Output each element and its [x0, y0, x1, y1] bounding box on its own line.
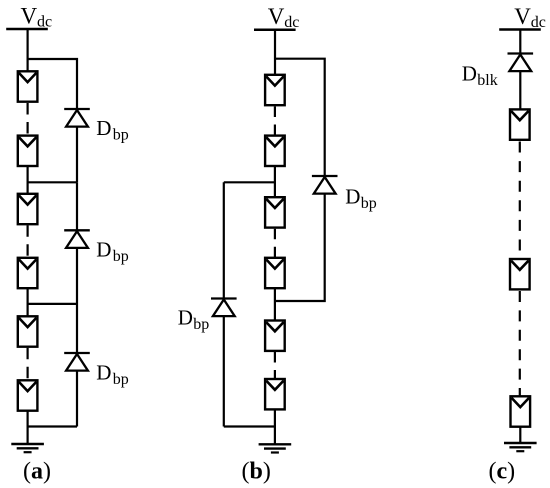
bypass diode D_bp3 (a): [64, 353, 90, 371]
net V_dc (c) label: [514, 4, 546, 31]
node V_dc (c) terminal bar: [499, 29, 541, 31]
node V_dc (a) terminal bar: [6, 28, 48, 30]
wire top branch to bypass column (a): [28, 59, 77, 110]
wire PV4 to PV5 (b): [274, 288, 276, 321]
svg-text:V: V: [268, 4, 285, 29]
PV module PV2 (a): [18, 136, 38, 166]
PV module PV1 (c): [510, 109, 530, 139]
bypass diode D_bp2 (a): [64, 230, 90, 248]
svg-text:blk: blk: [477, 72, 497, 89]
ground (c): [504, 443, 537, 451]
PV module PV5 (a): [18, 316, 38, 346]
wire bypass column upper (a): [76, 109, 78, 182]
dashed wire PV2-PV3 (c): [519, 291, 521, 396]
dashed wire PV3-PV4 (b): [274, 229, 276, 258]
svg-text:(a): (a): [23, 459, 51, 485]
PV module PV6 (a): [18, 380, 38, 410]
label D_bp1 (a): [96, 116, 129, 144]
wire blocking diode to PV1 (c): [519, 70, 521, 110]
PV module PV5 (b): [265, 321, 285, 351]
wire from V_dc bar down to string (b): [274, 30, 276, 75]
svg-text:V: V: [514, 4, 531, 29]
wire PV2 to PV3 (b): [274, 166, 276, 198]
ground (b): [259, 444, 292, 452]
svg-text:bp: bp: [113, 127, 129, 144]
PV module PV2 (b): [265, 136, 285, 166]
PV module PV3 (b): [265, 197, 285, 227]
wire PV3 to ground node (c): [519, 427, 521, 443]
svg-text:(c): (c): [489, 459, 516, 485]
svg-text:D: D: [178, 305, 193, 329]
net V_dc (a) label: [21, 4, 53, 31]
wire right bypass lower segment (b): [275, 176, 325, 301]
wire bypass column middle (a): [76, 182, 78, 304]
svg-text:D: D: [96, 237, 111, 261]
svg-text:bp: bp: [113, 248, 129, 265]
wire PV2 to junction 1 (a): [27, 166, 29, 195]
dashed wire PV5-PV6 (b): [274, 352, 276, 379]
svg-text:V: V: [21, 4, 38, 29]
svg-text:D: D: [345, 184, 360, 208]
wire bypass column lower (a): [76, 304, 78, 427]
wire PV6 to ground node (b): [274, 409, 276, 444]
PV module PV4 (b): [265, 258, 285, 288]
bypass diode D_bp1 (a): [64, 109, 90, 127]
junction 2 tap wire (a): [28, 303, 77, 305]
dashed wire PV1-PV2 (c): [519, 142, 521, 259]
PV module PV6 (b): [265, 379, 285, 409]
PV module PV3 (c): [511, 396, 531, 426]
dashed wire PV3-PV4 (a): [27, 225, 29, 257]
dashed wire PV5-PV6 (a): [27, 348, 29, 380]
ground (a): [11, 444, 44, 452]
blocking diode D_blk (c): [508, 54, 534, 72]
wire left bypass lower segment (b): [223, 299, 225, 427]
bottom junction tap wire (b): [224, 425, 275, 427]
label D_blk (c): [462, 62, 498, 90]
svg-text:D: D: [96, 116, 111, 140]
net V_dc (b) label: [268, 4, 300, 31]
label D_bp right (b): [345, 184, 377, 212]
wire V_dc bar to blocking diode (c): [519, 30, 521, 55]
PV module PV1 (a): [18, 71, 38, 101]
wire top branch to right bypass (b): [275, 59, 325, 176]
dashed wire PV1-PV2 (b): [274, 107, 276, 136]
junction tap wire to left bypass (b): [224, 181, 275, 183]
label D_bp3 (a): [96, 361, 129, 389]
node V_dc (b) terminal bar: [254, 29, 296, 31]
label D_bp2 (a): [96, 237, 129, 265]
bypass diode D_bp left (b): [211, 299, 237, 317]
wire PV6 to ground node (a): [27, 411, 29, 444]
wire left bypass upper segment (b): [223, 182, 225, 298]
svg-text:D: D: [462, 62, 477, 86]
label D_bp left (b): [178, 305, 210, 333]
svg-text:bp: bp: [113, 371, 129, 388]
PV module PV2 (c): [510, 259, 530, 289]
PV module PV3 (a): [18, 194, 38, 224]
wire PV4 to junction 2 (a): [27, 288, 29, 317]
bottom junction tap wire (a): [28, 425, 77, 427]
PV module PV4 (a): [18, 258, 38, 288]
dashed wire PV1-PV2 (a): [27, 103, 29, 135]
wire from V_dc bar down to string (a): [27, 29, 29, 72]
svg-text:bp: bp: [361, 195, 377, 212]
svg-text:D: D: [96, 361, 111, 385]
svg-text:(b): (b): [242, 459, 271, 485]
PV module PV1 (b): [265, 75, 285, 105]
junction 1 tap wire (a): [28, 181, 77, 183]
bypass diode D_bp right (b): [312, 176, 338, 194]
svg-text:bp: bp: [193, 316, 209, 333]
